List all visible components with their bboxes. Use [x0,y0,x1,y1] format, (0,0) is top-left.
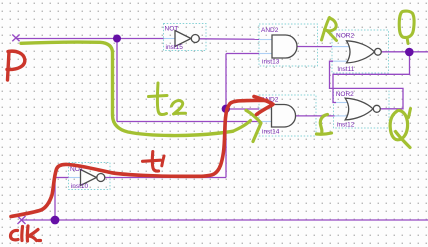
svg-text:inst11: inst11 [338,66,355,73]
svg-text:NOR2: NOR2 [336,91,354,98]
svg-text:inst10: inst10 [71,183,89,190]
svg-text:inst13: inst13 [262,59,280,66]
svg-text:AND2: AND2 [261,27,279,34]
svg-text:inst12: inst12 [337,122,355,129]
svg-text:inst15: inst15 [166,44,184,51]
svg-text:inst14: inst14 [262,129,280,136]
svg-text:NOR2: NOR2 [336,32,354,39]
svg-text:NOT: NOT [165,25,179,32]
